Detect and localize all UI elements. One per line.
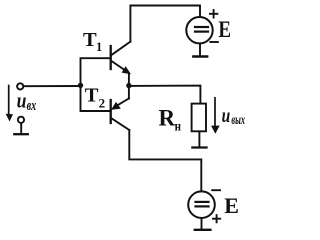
- svg-text:вых: вых: [231, 113, 245, 128]
- dc source E (bottom): [188, 190, 220, 222]
- wire T1 collector to +E: [130, 6, 200, 42]
- junction dot (emitters): [126, 83, 131, 88]
- label T1: [83, 29, 102, 54]
- svg-text:2: 2: [99, 96, 106, 111]
- svg-text:1: 1: [96, 40, 102, 54]
- label Rn: [159, 106, 182, 135]
- svg-text:T: T: [83, 29, 97, 51]
- transistor T1: [111, 42, 131, 74]
- input terminal (top): [17, 83, 23, 89]
- svg-text:E: E: [218, 17, 231, 42]
- junction dot (bases): [78, 83, 83, 88]
- svg-text:u: u: [222, 103, 231, 127]
- input terminal (bottom): [18, 117, 24, 123]
- output voltage arrow: [211, 98, 220, 134]
- dc source E (top): [186, 10, 218, 43]
- svg-text:R: R: [159, 106, 176, 131]
- label u_vyh: [222, 103, 245, 128]
- input voltage arrow: [6, 86, 13, 122]
- ground (top source): [193, 44, 207, 57]
- wire T2 collector to -E: [129, 130, 201, 191]
- svg-text:T: T: [85, 84, 99, 106]
- transistor T2: [111, 98, 130, 130]
- wire input to base bus: [24, 85, 81, 87]
- resistor Rn: [192, 104, 206, 132]
- svg-text:E: E: [224, 193, 239, 218]
- wire output node to load: [129, 86, 201, 104]
- svg-text:н: н: [175, 120, 181, 135]
- wire emitter node: [128, 74, 130, 98]
- svg-text:u: u: [17, 88, 27, 113]
- wire base bus: [81, 58, 111, 111]
- ground (bottom source): [195, 218, 211, 230]
- label u_vx: [17, 88, 37, 115]
- ground (load): [192, 132, 206, 148]
- label T2: [85, 84, 105, 110]
- ground (input): [14, 123, 27, 134]
- svg-text:вх: вх: [27, 98, 37, 114]
